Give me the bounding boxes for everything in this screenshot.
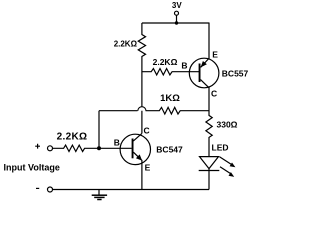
svg-text:LED: LED [212,143,229,153]
svg-text:BC547: BC547 [156,144,183,154]
svg-text:1KΩ: 1KΩ [160,93,180,104]
svg-text:2.2KΩ: 2.2KΩ [153,57,178,67]
svg-text:B: B [114,138,120,148]
svg-text:C: C [211,89,217,99]
svg-text:3V: 3V [172,1,182,10]
svg-text:2.2KΩ: 2.2KΩ [57,132,88,143]
svg-text:E: E [145,162,151,172]
svg-text:E: E [212,50,218,60]
svg-text:BC557: BC557 [222,68,249,78]
svg-text:C: C [144,126,150,136]
svg-text:Input Voltage: Input Voltage [4,162,60,172]
svg-text:330Ω: 330Ω [217,120,238,130]
svg-text:B: B [181,60,187,70]
svg-text:2.2KΩ: 2.2KΩ [114,40,138,49]
